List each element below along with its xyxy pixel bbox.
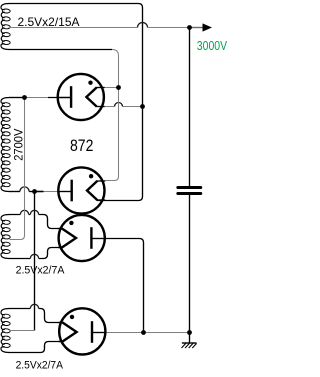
svg-text:2700V: 2700V bbox=[11, 129, 25, 161]
svg-text:2.5Vx2/7A: 2.5Vx2/7A bbox=[16, 265, 65, 277]
svg-text:2.5Vx2/7A: 2.5Vx2/7A bbox=[16, 360, 64, 372]
svg-text:3000V: 3000V bbox=[197, 38, 228, 53]
svg-text:2.5Vx2/15A: 2.5Vx2/15A bbox=[18, 15, 80, 29]
svg-text:872: 872 bbox=[70, 137, 93, 155]
